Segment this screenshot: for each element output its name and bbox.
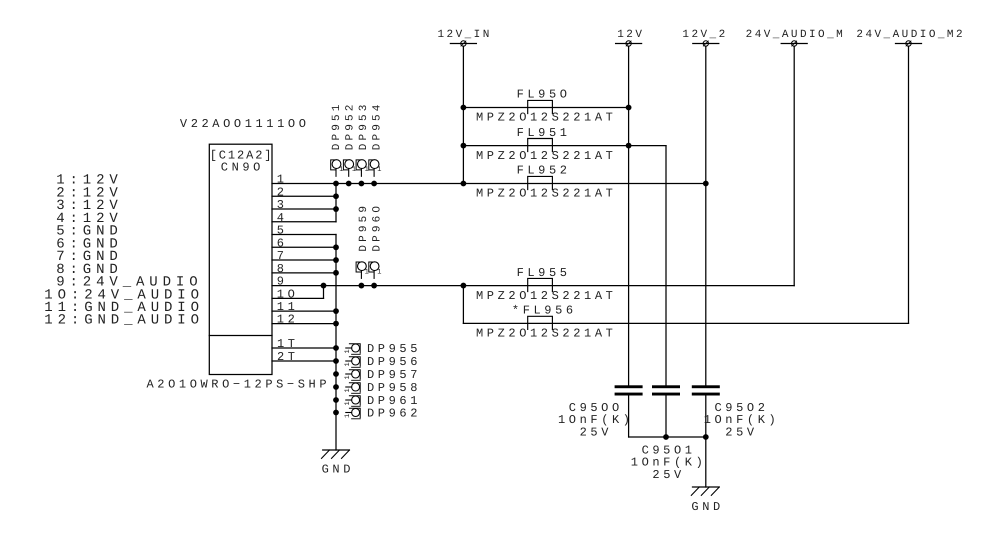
svg-text:12: 12: [277, 313, 299, 327]
svg-text:1: 1: [344, 375, 352, 379]
svg-text:1: 1: [352, 166, 356, 174]
svg-text:FL955: FL955: [517, 266, 571, 280]
svg-text:DP955: DP955: [367, 342, 421, 356]
svg-text:12V: 12V: [617, 29, 644, 41]
svg-text:1: 1: [377, 268, 381, 276]
svg-text:12:GND_AUDIO: 12:GND_AUDIO: [44, 313, 204, 329]
svg-text:2T: 2T: [277, 350, 299, 364]
svg-text:V22AOO1111OO: V22AOO1111OO: [180, 117, 310, 131]
svg-text:DP953: DP953: [358, 102, 370, 151]
svg-text:GND: GND: [322, 462, 354, 476]
svg-text:1: 1: [377, 166, 381, 174]
svg-text:1: 1: [339, 166, 343, 174]
svg-text:1: 1: [344, 362, 352, 366]
svg-text:12V_2: 12V_2: [682, 29, 727, 41]
svg-text:25V: 25V: [652, 468, 684, 482]
svg-text:FL952: FL952: [517, 164, 571, 178]
svg-text:1: 1: [344, 388, 352, 392]
svg-text:DP956: DP956: [367, 355, 421, 369]
svg-text:1: 1: [344, 401, 352, 405]
svg-text:24V_AUDIO_M2: 24V_AUDIO_M2: [856, 29, 965, 41]
svg-text:DP957: DP957: [367, 368, 421, 382]
svg-text:GND: GND: [691, 500, 723, 514]
svg-text:DP951: DP951: [331, 102, 343, 151]
svg-text:1: 1: [365, 166, 369, 174]
svg-text:1: 1: [344, 414, 352, 418]
svg-text:25V: 25V: [580, 425, 612, 439]
svg-text:25V: 25V: [725, 425, 757, 439]
svg-text:DP952: DP952: [345, 102, 357, 151]
svg-text:MPZ2O12S221AT: MPZ2O12S221AT: [476, 149, 616, 163]
svg-text:24V_AUDIO_M: 24V_AUDIO_M: [746, 29, 846, 41]
svg-text:12V_IN: 12V_IN: [437, 29, 491, 41]
svg-text:MPZ2O12S221AT: MPZ2O12S221AT: [476, 289, 616, 303]
svg-text:1: 1: [365, 268, 369, 276]
svg-text:FL95O: FL95O: [517, 88, 571, 102]
svg-text:DP959: DP959: [358, 203, 370, 252]
svg-text:*FL956: *FL956: [512, 304, 577, 318]
svg-text:1: 1: [344, 349, 352, 353]
svg-text:DP954: DP954: [371, 102, 383, 151]
svg-text:1T: 1T: [277, 337, 299, 351]
svg-text:MPZ2O12S221AT: MPZ2O12S221AT: [476, 187, 616, 201]
svg-text:MPZ2O12S221AT: MPZ2O12S221AT: [476, 111, 616, 125]
svg-text:CN9O: CN9O: [221, 161, 264, 175]
svg-text:DP958: DP958: [367, 381, 421, 395]
svg-text:DP96O: DP96O: [371, 203, 383, 252]
svg-text:MPZ2O12S221AT: MPZ2O12S221AT: [476, 327, 616, 341]
svg-text:DP962: DP962: [367, 407, 421, 421]
svg-text:A2O1OWRO−12PS−SHP: A2O1OWRO−12PS−SHP: [147, 377, 331, 391]
svg-text:FL951: FL951: [517, 126, 571, 140]
